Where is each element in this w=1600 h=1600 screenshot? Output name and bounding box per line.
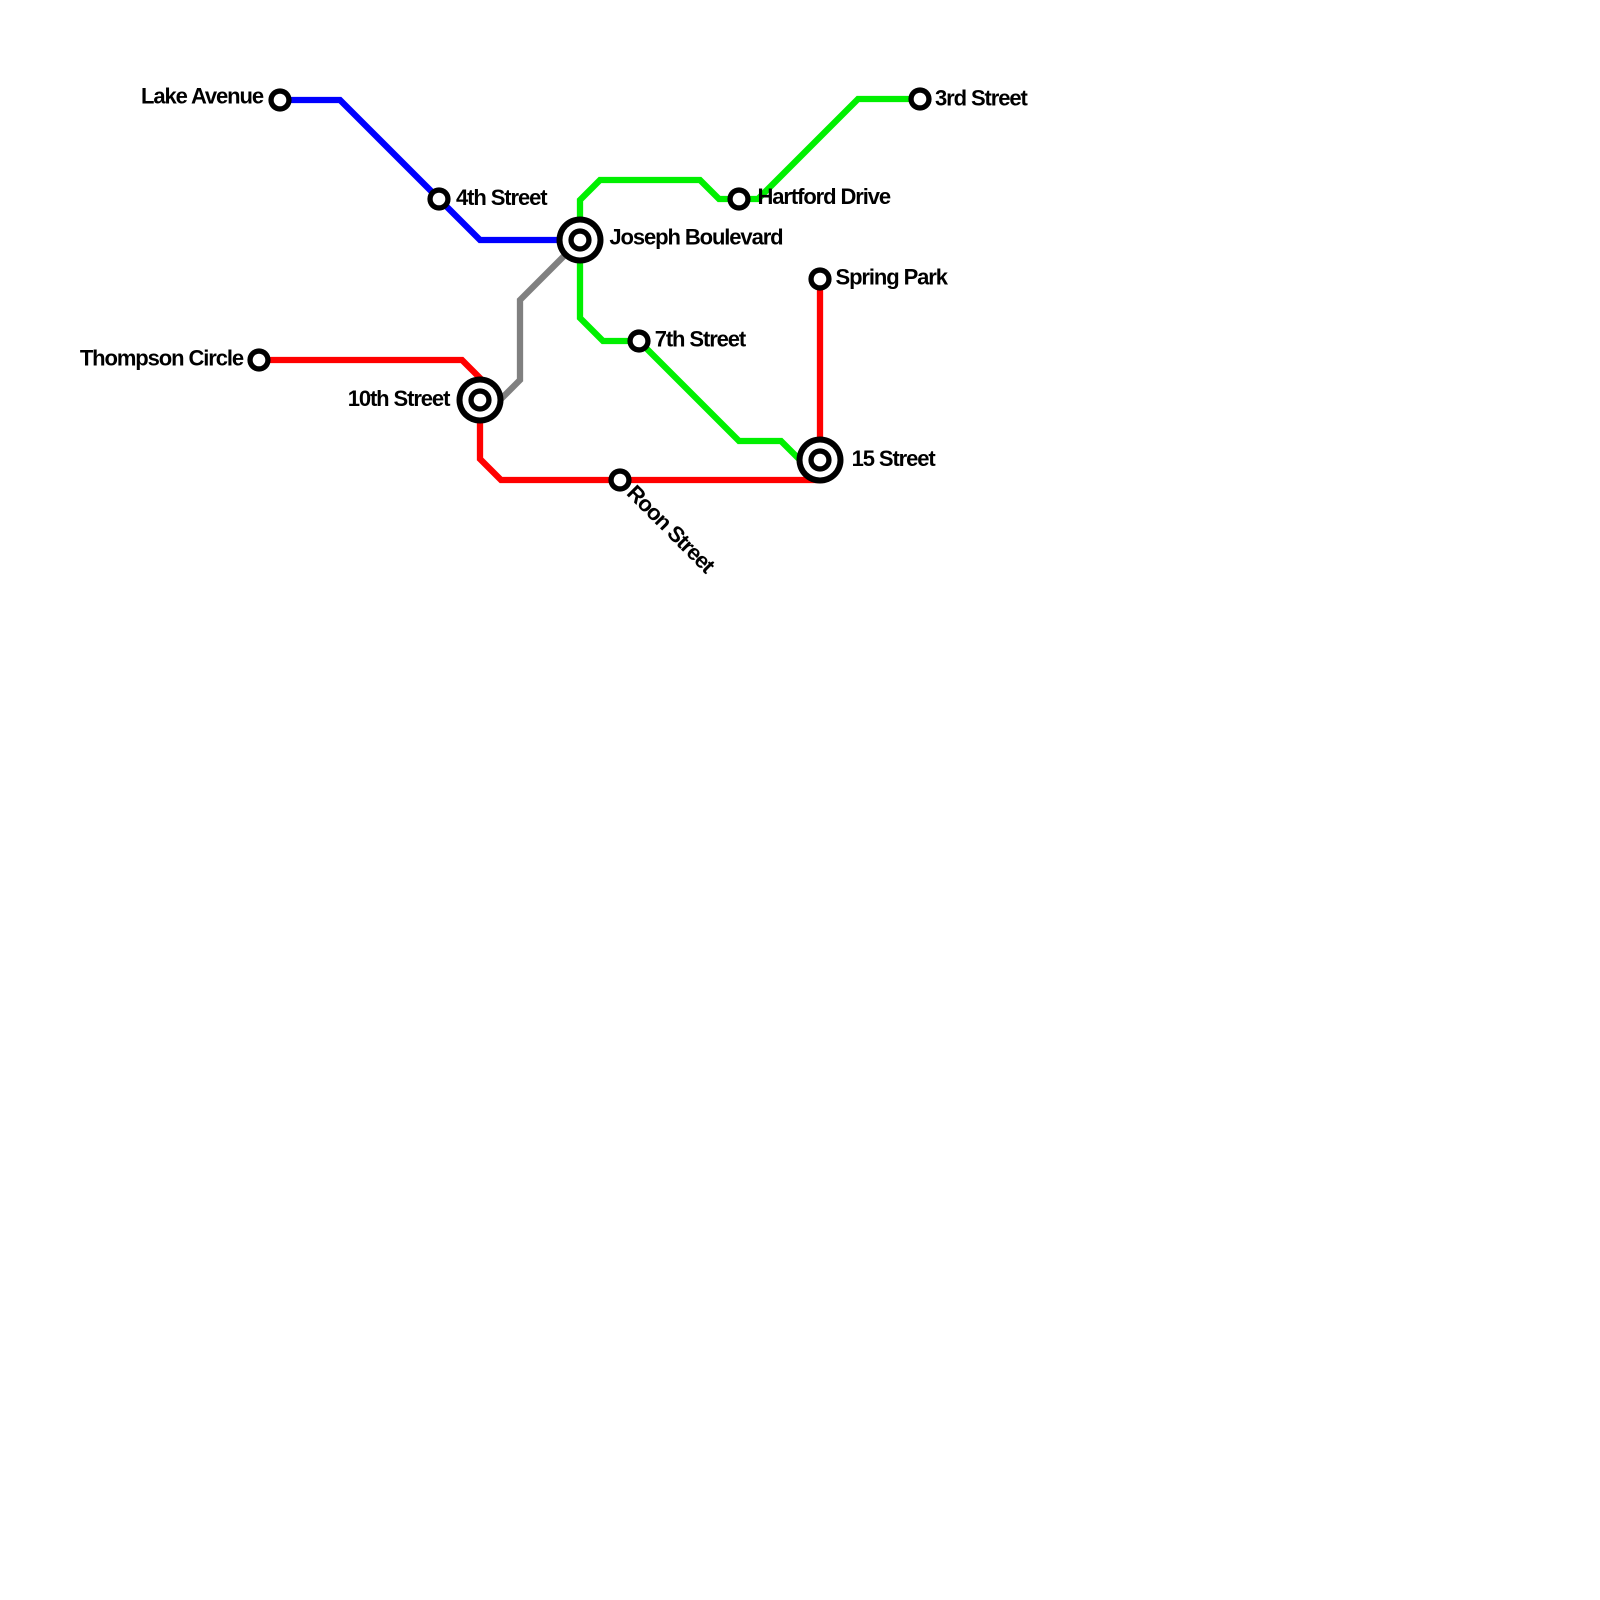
node 10th Street interchange xyxy=(457,377,504,424)
node Roon Street station xyxy=(608,468,631,491)
node 4th Street station xyxy=(427,187,450,210)
node Joseph Boulevard interchange xyxy=(557,217,604,264)
wire blue line: Lake Avenue - 4th Street - Joseph Boulevard xyxy=(280,100,580,240)
wire red line: Thompson Circle - 10th Street - Roon Street - 15 Street - Spring Park xyxy=(259,279,820,480)
node 7th Street station xyxy=(627,329,650,352)
node Thompson Circle station xyxy=(247,348,270,371)
node 3rd Street station xyxy=(908,87,931,110)
svg-text:15 Street: 15 Street xyxy=(852,446,937,471)
svg-text:Thompson Circle: Thompson Circle xyxy=(80,345,244,370)
svg-text:7th Street: 7th Street xyxy=(655,327,747,352)
node Spring Park station xyxy=(808,267,831,290)
node 15 Street interchange xyxy=(797,437,844,484)
svg-text:Joseph Boulevard: Joseph Boulevard xyxy=(609,224,782,249)
svg-text:Hartford Drive: Hartford Drive xyxy=(758,184,891,209)
svg-text:4th Street: 4th Street xyxy=(456,185,548,210)
wire gray line: Joseph Boulevard - 10th Street xyxy=(480,240,580,400)
svg-text:10th Street: 10th Street xyxy=(348,386,451,411)
svg-text:3rd Street: 3rd Street xyxy=(935,85,1028,110)
wire green line: 3rd Street - Hartford Drive - Joseph Boulevard - 7th Street - 15 Street xyxy=(580,99,920,460)
node Lake Avenue station xyxy=(268,88,291,111)
node Hartford Drive station xyxy=(727,187,750,210)
svg-text:Spring Park: Spring Park xyxy=(836,265,949,290)
svg-text:Lake Avenue: Lake Avenue xyxy=(141,84,264,109)
